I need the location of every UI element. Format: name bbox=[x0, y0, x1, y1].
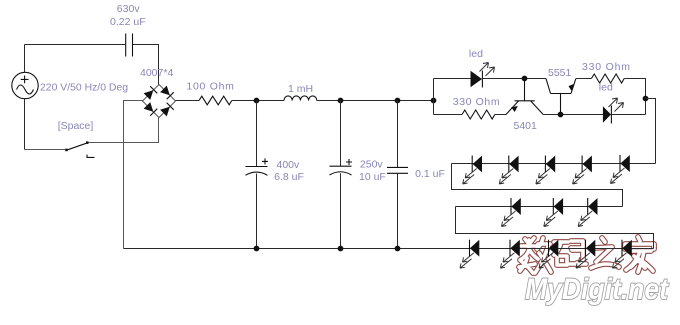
wire switch to bridge bottom bbox=[89, 118, 159, 143]
wire row1 to row2 link bbox=[452, 164, 623, 207]
wire to switch bbox=[25, 149, 65, 151]
wire AC bottom lead bbox=[24, 99, 26, 150]
svg-text:5401: 5401 bbox=[514, 120, 538, 132]
LED D17 bbox=[539, 240, 558, 269]
wire AC top lead bbox=[24, 45, 26, 73]
LED D8 bbox=[499, 156, 518, 185]
wire Q1 collector to Q2 base node bbox=[543, 114, 603, 116]
wire bottom branch to R2 bbox=[434, 114, 463, 116]
svg-text:MyDigit.net: MyDigit.net bbox=[525, 273, 670, 306]
diode D3 lower-left bbox=[143, 102, 157, 116]
wire C4col lower bbox=[397, 173, 399, 248]
node junction rail-C1col bbox=[254, 98, 260, 104]
svg-text:330 Ohm: 330 Ohm bbox=[453, 96, 500, 108]
capacitor C2 6.8uF 400v bbox=[246, 158, 269, 175]
transistor Q2 5551 bbox=[546, 79, 576, 115]
wire C3col upper bbox=[340, 101, 342, 167]
wire bridge right to R1 bbox=[176, 100, 200, 102]
svg-text:[Space]: [Space] bbox=[58, 120, 94, 132]
capacitor C3 10uF 250v bbox=[330, 159, 353, 175]
svg-text:1 mH: 1 mH bbox=[288, 83, 313, 95]
LED D16 bbox=[501, 240, 520, 269]
LED D6 led lower right bbox=[603, 98, 624, 124]
svg-text:0.1 uF: 0.1 uF bbox=[415, 168, 445, 180]
AC source V1 bbox=[12, 72, 38, 98]
svg-text:6.8 uF: 6.8 uF bbox=[274, 171, 304, 183]
wire C2col upper bbox=[256, 101, 258, 167]
wire R3 to right column bbox=[624, 79, 645, 115]
node junction Q1 base top bbox=[522, 76, 528, 82]
switch S1 [Space] bbox=[65, 141, 94, 157]
node junction Q2 base bottom bbox=[558, 112, 564, 118]
LED D18 bbox=[576, 240, 595, 269]
resistor R2 330 Ohm bbox=[462, 110, 495, 119]
svg-text:led: led bbox=[469, 48, 483, 60]
wire C3col lower bbox=[340, 173, 342, 248]
node junction output bbox=[643, 96, 649, 102]
LED D10 bbox=[573, 156, 592, 185]
LED D13 bbox=[544, 198, 563, 227]
svg-text:400v: 400v bbox=[277, 159, 301, 171]
wire C2col lower bbox=[256, 174, 258, 249]
wire bridge left to DC minus column bbox=[124, 101, 143, 249]
wire row2 to row3 link bbox=[456, 207, 654, 249]
wire right block input column bbox=[433, 79, 435, 115]
svg-text:10 uF: 10 uF bbox=[359, 171, 386, 183]
capacitor C1 0.22uF 630v plates bbox=[126, 34, 133, 57]
svg-text:4007*4: 4007*4 bbox=[140, 67, 173, 79]
wire top rail from AC to C1 bbox=[25, 44, 126, 46]
LED D9 bbox=[536, 156, 555, 185]
diode D2 upper-right bbox=[160, 85, 174, 99]
svg-text:220 V/50 Hz/0 Deg: 220 V/50 Hz/0 Deg bbox=[40, 82, 128, 94]
LED D5 led bbox=[471, 63, 495, 88]
wire LED string row 1 bbox=[452, 163, 656, 165]
wire D6 to right column bbox=[611, 114, 645, 116]
LED D7 bbox=[463, 156, 482, 185]
watermark 数码之家 bbox=[519, 237, 654, 273]
bridge rectifier D1-D4 4007*4 bbox=[143, 85, 176, 118]
svg-text:0.22 uF: 0.22 uF bbox=[110, 16, 146, 28]
svg-text:100 Ohm: 100 Ohm bbox=[186, 80, 234, 92]
diode D1 upper-left bbox=[143, 86, 157, 100]
capacitor C4 0.1uF bbox=[387, 167, 408, 173]
diode D4 lower-right bbox=[160, 103, 174, 117]
wire R2 to Q1 emitter bbox=[495, 114, 506, 116]
svg-text:5551: 5551 bbox=[548, 67, 572, 79]
wire R1 to L1 bbox=[232, 100, 284, 102]
resistor R1 100 Ohm bbox=[199, 96, 232, 105]
node junction rail-C2col bbox=[338, 98, 344, 104]
LED D19 bbox=[613, 240, 632, 269]
node junction rail-C3col bbox=[395, 98, 401, 104]
node junction rail-C2col bottom bbox=[254, 246, 260, 252]
transistor Q1 5401 bbox=[506, 79, 543, 115]
svg-text:630v: 630v bbox=[117, 3, 141, 15]
svg-text:led: led bbox=[599, 82, 613, 94]
wire top branch to LED1 bbox=[434, 78, 471, 80]
wire C1 to bridge top bbox=[133, 45, 159, 85]
wire L1 to right block bbox=[317, 100, 434, 102]
node junction rail-block bbox=[431, 98, 437, 104]
svg-text:250v: 250v bbox=[360, 158, 384, 170]
wire bottom rail row 3 bbox=[124, 248, 654, 250]
wire LED string row 2 bbox=[456, 206, 623, 208]
wire output stub to string column bbox=[646, 99, 656, 164]
LED D15 bbox=[460, 240, 479, 269]
svg-text:330 Ohm: 330 Ohm bbox=[582, 61, 630, 73]
LED D14 bbox=[578, 198, 597, 227]
wire C4col upper bbox=[397, 101, 399, 168]
resistor R3 330 Ohm bbox=[591, 74, 624, 83]
wire LED1 to node Q1 base bbox=[482, 78, 546, 80]
node junction rail-C4col bottom bbox=[395, 246, 401, 252]
wire Q2 emitter to R3 bbox=[576, 78, 592, 80]
LED D11 bbox=[611, 155, 630, 184]
LED D12 bbox=[502, 198, 521, 227]
node junction rail-C3col bottom bbox=[338, 246, 344, 252]
inductor L1 1 mH bbox=[284, 96, 317, 101]
